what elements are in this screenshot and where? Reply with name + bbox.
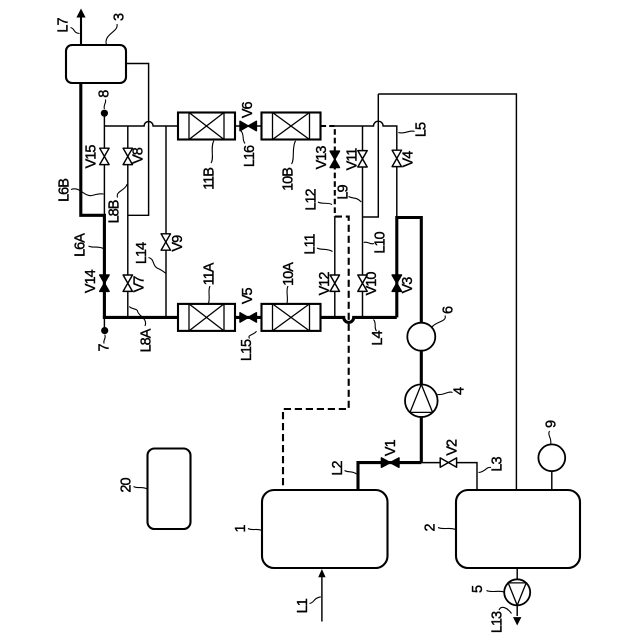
valve V14 [100,275,109,291]
leader L6A [89,246,104,249]
svg-text:4: 4 [451,387,467,395]
svg-text:10B: 10B [281,168,297,191]
wire tank 2 to pump 5 [516,568,518,579]
wire L14 through V9 [165,126,167,317]
svg-text:V10: V10 [364,272,380,296]
svg-text:V2: V2 [444,439,460,456]
svg-text:V6: V6 [240,102,256,119]
wire L8B loop from tank 3 right side [126,64,149,216]
wire L1 arrow line [321,575,323,622]
wire from node 8 to 11B with hop over L8B [104,122,178,127]
wire node 8 stub [103,113,105,126]
valve V13 [330,151,339,167]
wire L7 arrow line [80,15,82,45]
leader L7 [71,28,80,34]
valve V12 [330,275,339,291]
svg-text:L16: L16 [242,145,258,167]
pump 5 [504,579,530,605]
node 7 [101,327,108,334]
svg-text:V8: V8 [131,147,147,164]
wire L9 through V11 V10 [362,126,364,317]
svg-text:L4: L4 [370,331,386,346]
svg-text:L8B: L8B [107,200,123,223]
wire node 7 stub [103,317,105,329]
tank 2 [456,490,580,568]
valve V7 [123,275,132,291]
leader 1 [248,529,262,531]
leader L16 [241,131,245,144]
wire down to flow meter 6 [420,216,423,324]
leader 2 [438,528,456,530]
svg-text:L13: L13 [490,611,506,633]
leader L10 [364,242,374,244]
node 8 [101,110,108,117]
svg-text:1: 1 [233,525,249,533]
leader L8B [117,184,127,198]
arrowhead L13 [513,617,521,625]
valve V4 [392,150,401,166]
arrowhead L7 [76,9,85,18]
svg-text:L8A: L8A [139,328,155,352]
svg-text:V5: V5 [240,288,256,305]
svg-text:V15: V15 [84,145,100,169]
svg-text:5: 5 [470,585,486,593]
wire L5 top loop to tank 2 [378,94,516,490]
heat exchanger 10A [262,304,321,331]
valve V2 [440,458,456,467]
leader L4 [374,320,377,332]
wire L3 through V2 to tank 2 [421,463,477,490]
leader L6B [71,189,104,196]
wire L13 below pump 5 [516,605,518,616]
valve V5 [240,313,256,322]
svg-text:V13: V13 [314,146,330,170]
svg-text:L3: L3 [490,457,506,472]
valve V10 [358,275,367,291]
wire sensor 9 stub [551,471,553,490]
svg-text:L14: L14 [134,242,150,264]
svg-text:2: 2 [423,524,439,532]
wire pump 4 to V1 line [420,417,423,463]
leader 10B [292,141,296,164]
svg-text:11B: 11B [202,168,218,190]
svg-text:7: 7 [96,344,112,352]
svg-text:L6A: L6A [73,233,89,257]
wire V3 riser and corner to pump line [397,218,422,318]
leader 5 [487,591,504,593]
wire L12 dashed jog and drop [283,217,349,490]
leader 20 [134,487,148,490]
svg-text:3: 3 [112,13,128,21]
svg-text:8: 8 [97,90,113,98]
svg-text:6: 6 [441,306,457,314]
svg-text:V11: V11 [345,148,361,171]
wire from dashed corner to V4 with hop over L5 leg [335,121,397,217]
svg-text:L7: L7 [56,18,72,33]
wire L2 thick through V1 to tank 1 [358,463,421,490]
leader L13 [499,607,512,613]
heat exchanger 11A [178,304,235,331]
svg-text:L2: L2 [330,461,346,476]
svg-text:V12: V12 [317,272,333,296]
svg-text:9: 9 [544,420,560,428]
svg-text:V3: V3 [400,277,416,294]
svg-text:V7: V7 [132,276,148,293]
valve V9 [161,234,170,250]
tank 1 [262,490,388,568]
wire L5 left leg joining L9 [363,94,379,217]
valve V1 [381,458,399,467]
wire L11 through V12 [334,217,336,318]
svg-text:20: 20 [119,478,135,493]
leader 8 [104,100,106,110]
controller 20 [148,449,191,530]
sensor 9 [538,444,565,471]
leader 3 [106,24,117,45]
wire V15 branch [103,126,105,215]
svg-text:L1: L1 [295,598,311,613]
leader L5 [398,131,414,133]
wire L12 dashed from 10B to V13 [321,126,335,217]
heat exchanger 11B [178,113,235,140]
wire L8A thick to exchanger 11A [103,316,178,319]
leader L3 [479,467,492,472]
wire L15 between 11A and 10A [235,316,262,319]
svg-text:L12: L12 [304,188,320,210]
svg-text:10A: 10A [281,262,297,286]
svg-text:V4: V4 [401,151,417,168]
leader 11A [209,286,211,303]
svg-text:L15: L15 [239,339,255,361]
heat exchanger 10B [262,113,321,140]
wire flow meter 6 to pump 4 [420,351,423,386]
leader L8A [129,307,145,327]
leader L1 [310,597,321,604]
flow meter 6 [407,323,435,351]
leader 10A [287,286,288,303]
svg-text:L11: L11 [303,234,319,255]
leader 4 [438,392,453,395]
svg-text:L6B: L6B [57,179,73,202]
leader L15 [249,331,257,338]
svg-text:11A: 11A [202,262,218,285]
valve V6 [240,121,256,130]
wire L4 thick from 10A to V3 with hop under dashed line [321,317,397,322]
leader L11 [317,248,333,252]
svg-text:V14: V14 [83,269,99,293]
leader L12 [318,202,332,205]
valve V11 [358,151,367,167]
wire L16 between 11B and 10B [235,125,262,127]
arrowhead L1 [318,569,325,577]
wire V8-V7 branch [127,126,129,317]
svg-text:V9: V9 [170,235,186,252]
valve V8 [123,148,132,164]
leader 7 [104,335,105,344]
valve V3 [392,275,401,291]
leader L2 [345,471,357,475]
svg-text:V1: V1 [383,439,399,456]
leader L9 [349,197,362,203]
leader 9 [549,431,551,445]
leader 6 [432,316,445,328]
valve V15 [100,148,109,164]
svg-text:L10: L10 [373,231,389,253]
wire L6 from tank 3 bottom to V14 line [81,83,105,317]
svg-text:L5: L5 [414,122,430,137]
leader L14 [149,258,167,274]
leader 11B [211,141,214,163]
tank 3 [66,45,126,83]
pump 4 [405,384,438,417]
